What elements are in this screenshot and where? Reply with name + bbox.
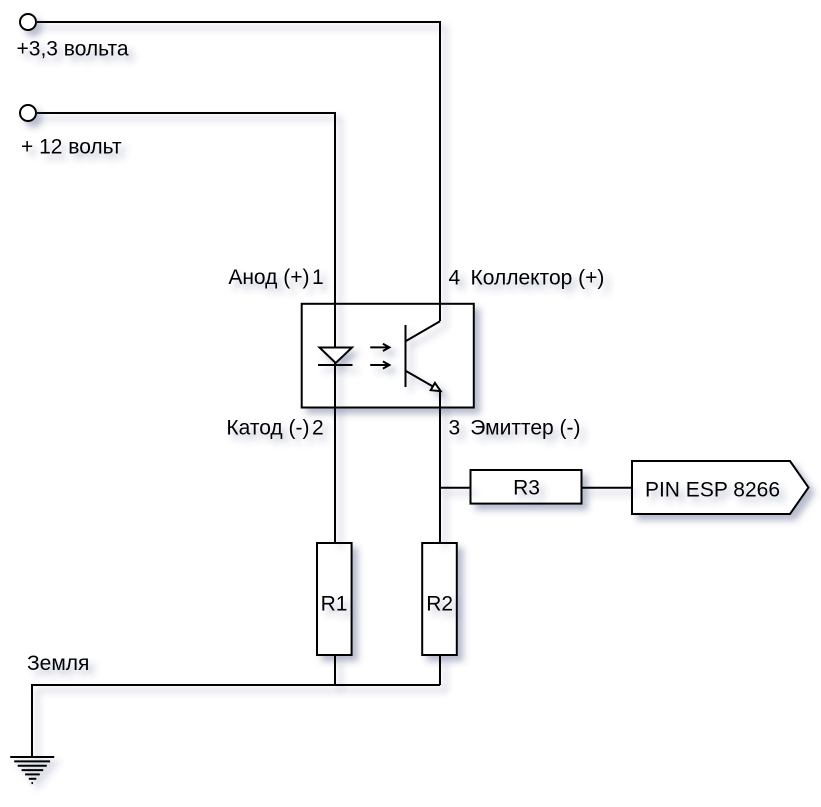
svg-text:R2: R2: [426, 593, 453, 616]
svg-text:R1: R1: [321, 593, 348, 616]
svg-text:Анод (+): Анод (+): [228, 266, 309, 289]
svg-text:3: 3: [449, 417, 461, 440]
svg-text:PIN ESP 8266: PIN ESP 8266: [645, 479, 780, 502]
svg-text:Земля: Земля: [27, 652, 89, 675]
svg-text:Эмиттер (-): Эмиттер (-): [470, 417, 580, 440]
svg-text:+ 12 вольт: + 12 вольт: [21, 136, 122, 159]
svg-text:4: 4: [449, 267, 461, 290]
svg-text:2: 2: [312, 417, 324, 440]
svg-text:1: 1: [312, 266, 324, 289]
svg-text:Катод (-): Катод (-): [226, 417, 309, 440]
svg-text:+3,3 вольта: +3,3 вольта: [17, 37, 129, 60]
svg-text:R3: R3: [513, 477, 540, 500]
svg-text:Коллектор (+): Коллектор (+): [471, 267, 605, 290]
